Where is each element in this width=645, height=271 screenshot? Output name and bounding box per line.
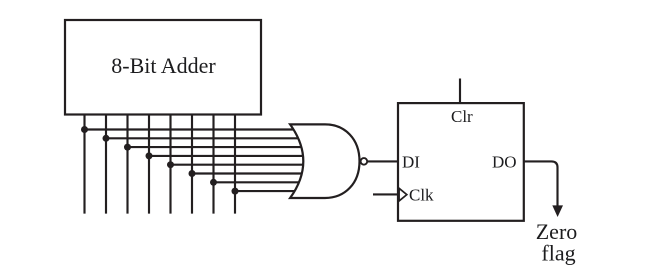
- junction dot bit 3: [146, 152, 153, 159]
- wire sum bit 6 (vertical): [212, 115, 214, 214]
- wire NOR output to DI: [367, 160, 398, 162]
- register U2 (zero flag flip-flop): [398, 103, 524, 221]
- clock edge triangle: [399, 188, 407, 201]
- wire branch to NOR input 5: [171, 164, 309, 166]
- wire sum bit 1 (vertical): [105, 115, 107, 214]
- wire Clk input: [373, 193, 398, 195]
- wire sum bit 7 (vertical): [234, 115, 236, 214]
- wire sum bit 4 (vertical): [169, 115, 171, 214]
- junction dot bit 0: [81, 126, 88, 133]
- wire sum bit 5 (vertical): [191, 115, 193, 214]
- wire branch to NOR input 3: [128, 146, 309, 148]
- wire sum bit 2 (vertical): [126, 115, 128, 214]
- wire Clr stub: [459, 79, 461, 104]
- wire branch to NOR input 6: [192, 172, 308, 174]
- svg-text:Clr: Clr: [451, 107, 473, 126]
- wire DO output with corner: [525, 161, 558, 206]
- junction dot bit 7: [232, 188, 239, 195]
- wire branch to NOR input 1: [85, 128, 309, 130]
- wire branch to NOR input 7: [214, 181, 309, 183]
- svg-text:DO: DO: [492, 152, 517, 171]
- wire branch to NOR input 2: [106, 137, 308, 139]
- arrowhead to Zero flag: [552, 205, 563, 217]
- wire branch to NOR input 4: [149, 155, 308, 157]
- junction dot bit 4: [167, 161, 174, 168]
- svg-text:flag: flag: [541, 241, 575, 266]
- NOR gate U1 (8-input): [290, 124, 359, 198]
- junction dot bit 6: [210, 179, 217, 186]
- junction dot bit 2: [124, 144, 131, 151]
- wire sum bit 3 (vertical): [148, 115, 150, 214]
- junction dot bit 5: [189, 170, 196, 177]
- svg-text:DI: DI: [402, 152, 420, 171]
- 8-bit adder block A1: [65, 20, 261, 115]
- NOR inversion bubble: [361, 158, 368, 165]
- junction dot bit 1: [103, 135, 110, 142]
- svg-text:8-Bit Adder: 8-Bit Adder: [111, 53, 216, 78]
- svg-text:Clk: Clk: [409, 186, 434, 205]
- wire sum bit 0 (vertical): [83, 115, 85, 214]
- wire branch to NOR input 8: [235, 190, 308, 192]
